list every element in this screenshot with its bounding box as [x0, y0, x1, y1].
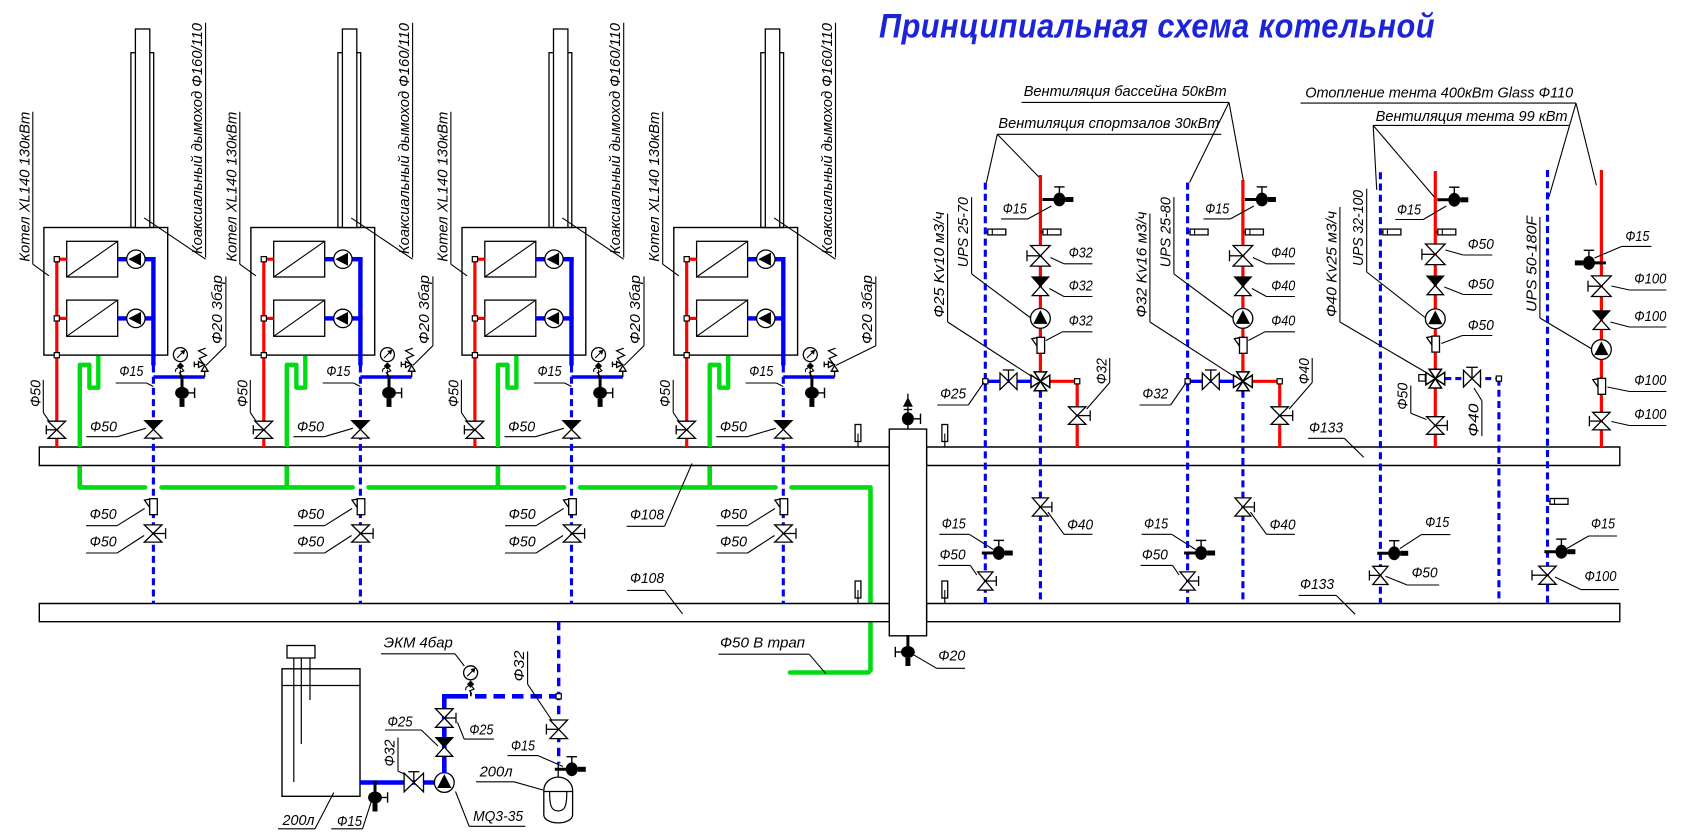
boiler 4 riser shut-off valve Ф50: [775, 525, 793, 534]
svg-text:Ф50: Ф50: [509, 506, 537, 523]
boiler 3 Котел XL140 130кВт: casing box: [462, 228, 586, 356]
boiler 2 safety valve Ф20 3бар: [411, 371, 413, 377]
svg-text:Ф108: Ф108: [630, 507, 665, 524]
svg-text:Ф15: Ф15: [1205, 201, 1230, 218]
thermowell pocket supply collector right: [944, 442, 946, 448]
circuit 3 pump UPS 32-100: [1425, 309, 1445, 329]
circuit 3 check valve Ф50: [1427, 276, 1443, 285]
boiler 1 heat exchanger 2: [67, 300, 118, 336]
svg-text:Ф15: Ф15: [337, 813, 363, 830]
boiler 2 riser shut-off valve Ф50: [352, 525, 370, 534]
boiler 3 circulation pump 1: [545, 250, 563, 268]
svg-text:Ф50: Ф50: [720, 418, 748, 435]
supply collector Ф108 (right of separator): [927, 447, 1620, 466]
circuit 2 shut-off valve Ф40: [1233, 246, 1253, 256]
circuit 2 three-way mixing valve: [1234, 375, 1243, 387]
boiler 3 green bypass loop pipe: [498, 356, 517, 447]
make-up dashed line to junction: [457, 694, 559, 699]
svg-text:Коаксиальный дымоход Ф160/110: Коаксиальный дымоход Ф160/110: [819, 22, 836, 254]
boiler 2 riser flexible insert Ф50: [352, 499, 357, 507]
circuit 2 check valve Ф40: [1235, 277, 1251, 286]
svg-text:Ф50: Ф50: [445, 379, 462, 407]
svg-text:Ф40: Ф40: [1271, 277, 1296, 294]
circuit 1 drop valve to supply collector: [1069, 407, 1086, 416]
boiler 4 red supply pipe: [685, 259, 688, 447]
svg-text:Ф32: Ф32: [511, 650, 528, 682]
circuit 2 riser from mixing valve to return collector: [1241, 391, 1244, 604]
svg-text:Вентиляция бассейна 50кВт: Вентиляция бассейна 50кВт: [1024, 83, 1227, 100]
svg-text:Ф15: Ф15: [538, 363, 563, 380]
boiler 1 heat exchanger 1: [67, 241, 118, 277]
svg-text:Ф50: Ф50: [297, 506, 325, 523]
hydraulic separator vessel: [889, 429, 926, 636]
boiler 2 coaxial chimney Ф160/110: [338, 53, 361, 228]
boiler 1 Котел XL140 130кВт: casing box: [44, 228, 168, 356]
svg-text:Ф50: Ф50: [234, 379, 251, 407]
valve Ф32 on riser: [550, 720, 568, 729]
circuit 3 thermowell pockets: [1380, 231, 1383, 233]
circuit 4 riser valve Ф100: [1539, 566, 1556, 575]
svg-text:Ф25: Ф25: [940, 386, 967, 403]
return collector Ф108/Ф133 (left of separator): [39, 604, 889, 622]
svg-text:Коаксиальный дымоход Ф160/110: Коаксиальный дымоход Ф160/110: [396, 22, 413, 254]
svg-text:Принципиальная схема котельной: Принципиальная схема котельной: [879, 8, 1435, 46]
circuit 2 supply pipe (red): [1241, 180, 1244, 372]
thermowell pocket return collector right: [944, 598, 946, 604]
circuit 1 riser drain cock Ф15: [982, 540, 1013, 560]
svg-text:Ф50: Ф50: [90, 533, 118, 550]
boiler 3 blue return riser Ф50 (dashed): [570, 366, 573, 604]
circuit 1 corner node: [1075, 379, 1080, 384]
boiler 3 heat exchanger 1: [485, 241, 536, 277]
svg-text:Ф20 3бар: Ф20 3бар: [627, 275, 644, 344]
circuit 1 riser from mixing valve to return collector: [1039, 391, 1042, 604]
boiler 2 internal blue pipework: [325, 257, 334, 261]
svg-text:Ф15: Ф15: [1003, 201, 1028, 218]
circuit 4 flexible insert: [1593, 379, 1598, 387]
circuit 1 shut-off valve Ф32: [1031, 246, 1051, 256]
svg-text:Коаксиальный дымоход Ф160/110: Коаксиальный дымоход Ф160/110: [607, 22, 624, 254]
boiler 3 Ф15 make-up line: [572, 375, 623, 378]
boiler 1 manometer with cock: [179, 370, 181, 377]
tank drain ball valve Ф15: [374, 783, 377, 792]
boiler 4 drain ball valve: [805, 376, 825, 407]
boiler 4 shut-off valve Ф50 on supply: [678, 421, 696, 430]
boiler 1 red supply pipe: [55, 259, 58, 447]
green header tie-in leg boiler 3: [496, 465, 501, 489]
circuit 4 valve Ф100 to supply collector: [1593, 412, 1610, 421]
separator bottom drain valve Ф20: [907, 636, 909, 645]
boiler 1 riser shut-off valve Ф50: [144, 525, 162, 534]
boiler 2 circulation pump 2: [334, 309, 352, 327]
return collector Ф108/Ф133 (right of separator): [927, 604, 1620, 622]
circuit 2 riser drain cock Ф15: [1184, 540, 1215, 560]
svg-text:ЭКМ 4бар: ЭКМ 4бар: [384, 634, 453, 651]
boiler 4 Ф15 make-up line: [783, 375, 834, 378]
svg-text:Ф32 Kv16 м3/ч: Ф32 Kv16 м3/ч: [1133, 211, 1150, 317]
circuit 1 drain cock Ф15: [1042, 187, 1073, 207]
boiler 3 manometer with cock: [598, 370, 600, 377]
svg-text:Ф40: Ф40: [1270, 517, 1297, 534]
svg-text:Ф50: Ф50: [27, 379, 44, 407]
green condensate header pipe: [80, 485, 145, 490]
circuit 3 blanked port node: [1419, 375, 1426, 382]
circuit 3 riser drain cock Ф15: [1377, 541, 1408, 561]
green header tie-in leg boiler 2: [284, 465, 289, 489]
svg-text:Ф50: Ф50: [90, 418, 118, 435]
circuit 1 flexible insert: [1032, 338, 1037, 346]
svg-text:Ф15: Ф15: [1591, 516, 1616, 533]
svg-text:MQ3-35: MQ3-35: [473, 808, 524, 825]
svg-text:Ф15: Ф15: [749, 363, 774, 380]
boiler 3 red supply pipe: [473, 259, 476, 447]
pump MQ3-35: [434, 773, 454, 793]
svg-text:Ф15: Ф15: [1397, 202, 1422, 219]
svg-text:Ф40: Ф40: [1271, 245, 1296, 262]
boiler 4 green bypass loop pipe: [710, 356, 729, 447]
make-up vertical pipe: [442, 694, 447, 774]
svg-text:Коаксиальный дымоход Ф160/110: Коаксиальный дымоход Ф160/110: [189, 22, 206, 254]
svg-text:Ф50: Ф50: [1468, 276, 1495, 293]
circuit 3 drain cock Ф15: [1437, 187, 1468, 207]
circuit 1 return riser (blue dashed): [984, 183, 987, 604]
boiler 3 drain ball valve: [593, 376, 613, 407]
circuit 2 corner node: [1277, 379, 1282, 384]
boiler 1 circulation pump 1: [127, 250, 145, 268]
expansion vessel 200л: [544, 777, 573, 823]
circuit 2 flexible insert: [1234, 338, 1239, 346]
circuit 4 riser thermowell pocket: [1548, 500, 1551, 502]
circuit 3 three-way mixing valve: [1426, 372, 1435, 384]
svg-text:Ф40: Ф40: [1465, 403, 1482, 437]
svg-text:200л: 200л: [282, 812, 315, 829]
circuit 2 riser valve Ф50: [1180, 572, 1195, 581]
svg-text:Котел XL140 130кВт: Котел XL140 130кВт: [223, 112, 240, 262]
drain cock Ф15 near vessel: [555, 757, 586, 777]
circuit 4 shut-off valve Ф100: [1592, 276, 1612, 286]
svg-text:Ф40: Ф40: [1067, 517, 1094, 534]
boiler 1 safety valve Ф20 3бар: [204, 371, 206, 377]
boiler 1 pipe nodes: [54, 257, 59, 262]
boiler 4 check valve Ф50 on return riser: [775, 421, 792, 430]
svg-text:Ф15: Ф15: [1625, 228, 1650, 245]
circuit 2 return riser (blue dashed): [1186, 183, 1189, 604]
svg-text:Ф133: Ф133: [1309, 419, 1344, 436]
svg-text:Ф50: Ф50: [1468, 317, 1495, 334]
circuit 4 return riser (blue dashed): [1546, 170, 1549, 603]
svg-text:UPS 25-70: UPS 25-70: [955, 197, 972, 268]
green header tie-in leg boiler 4: [707, 465, 712, 489]
circuit 4 supply pipe (red): [1600, 170, 1603, 447]
circuit 1 pump UPS 25-70: [1031, 309, 1051, 329]
svg-text:Ф25: Ф25: [388, 714, 414, 731]
svg-text:UPS 32-100: UPS 32-100: [1350, 189, 1367, 266]
boiler 3 riser flexible insert Ф50: [564, 499, 569, 507]
svg-text:Вентиляция спортзалов 30кВт: Вентиляция спортзалов 30кВт: [998, 115, 1219, 132]
circuit 2 thermowell pockets: [1188, 231, 1191, 233]
circuit 1 supply pipe (red): [1039, 175, 1042, 372]
circuit 2 valve on mixing riser: [1235, 498, 1251, 507]
svg-text:Ф20 3бар: Ф20 3бар: [209, 275, 226, 344]
green drain line to floor trap Ф50: [790, 490, 871, 673]
boiler 2 circulation pump 1: [334, 250, 352, 268]
boiler 3 internal blue pipework: [536, 257, 545, 261]
boiler 4 internal blue pipework: [748, 257, 757, 261]
boiler 2 heat exchanger 2: [274, 300, 325, 336]
boiler 4 blue return riser Ф50 (dashed): [782, 366, 785, 604]
thermowell pocket return collector left: [857, 598, 859, 604]
circuit 4 pump UPS 50-180F: [1592, 340, 1612, 360]
supply collector Ф108 (left of separator): [39, 447, 889, 466]
boiler 1 green bypass loop pipe: [80, 356, 99, 447]
boiler 3 circulation pump 2: [545, 309, 563, 327]
green header left elbow riser (boiler 1 leg): [80, 465, 82, 487]
circuit 4 check valve Ф100: [1593, 311, 1609, 320]
make-up pipe from tank: [360, 780, 435, 785]
svg-text:Ф50: Ф50: [1468, 236, 1495, 253]
circuit 1 valve on mixing riser: [1032, 498, 1048, 507]
svg-text:Ф50: Ф50: [720, 533, 748, 550]
boiler 4 safety valve Ф20 3бар: [834, 371, 836, 377]
svg-text:Ф40 Kv25 м3/ч: Ф40 Kv25 м3/ч: [1323, 211, 1340, 317]
boiler 2 Ф15 make-up line: [360, 375, 411, 378]
boiler 4 heat exchanger 1: [697, 241, 748, 277]
boiler 1 coaxial chimney Ф160/110: [131, 53, 154, 228]
circuit 2 pump UPS 25-80: [1233, 309, 1253, 329]
boiler 2 pipe nodes: [261, 257, 266, 262]
svg-text:Ф50: Ф50: [1412, 564, 1439, 581]
thermowell pocket supply collector left: [857, 442, 859, 448]
boiler 4 circulation pump 2: [757, 309, 775, 327]
svg-text:Ф108: Ф108: [630, 570, 665, 587]
circuit 2 drop valve to supply collector: [1271, 407, 1288, 416]
svg-text:Ф15: Ф15: [942, 516, 967, 533]
svg-text:Ф50: Ф50: [1142, 547, 1169, 564]
boiler 2 shut-off valve Ф50 on supply: [255, 421, 273, 430]
boiler 2 Котел XL140 130кВт: casing box: [251, 228, 375, 356]
svg-text:Ф20 3бар: Ф20 3бар: [416, 275, 433, 344]
svg-text:Ф32: Ф32: [1069, 245, 1094, 262]
boiler 3 shut-off valve Ф50 on supply: [466, 421, 484, 430]
circuit 3 return riser (blue dashed): [1379, 172, 1382, 603]
svg-text:Ф15: Ф15: [326, 363, 351, 380]
boiler 2 check valve Ф50 on return riser: [352, 421, 369, 430]
manometer ЭКМ 4бар: [470, 690, 472, 696]
boiler 1 blue return riser Ф50 (dashed): [152, 366, 155, 604]
make-up tank 200л: [282, 669, 360, 797]
boiler 4 riser flexible insert Ф50: [775, 499, 780, 507]
svg-text:Ф40: Ф40: [1271, 312, 1296, 329]
valve Ф32 make-up: [404, 773, 414, 792]
boiler 1 shut-off valve Ф50 on supply: [48, 421, 66, 430]
svg-text:Ф15: Ф15: [1425, 514, 1450, 531]
svg-text:Ф50: Ф50: [297, 533, 325, 550]
boiler 1 internal blue pipework: [118, 257, 127, 261]
circuit 3 supply pipe (red): [1434, 171, 1437, 369]
boiler 4 circulation pump 1: [757, 250, 775, 268]
svg-text:Котел XL140 130кВт: Котел XL140 130кВт: [646, 112, 663, 262]
svg-text:Ф25 Kv10 м3/ч: Ф25 Kv10 м3/ч: [931, 211, 948, 317]
boiler 2 manometer with cock: [386, 370, 388, 377]
valve Ф25: [436, 709, 454, 718]
boiler 3 coaxial chimney Ф160/110: [549, 53, 572, 228]
circuit 1 thermowell pockets: [985, 231, 988, 233]
svg-text:Ф32: Ф32: [1142, 386, 1169, 403]
svg-text:Ф32: Ф32: [1094, 358, 1111, 385]
svg-text:Ф15: Ф15: [1144, 516, 1169, 533]
junction node: [556, 694, 561, 699]
circuit 1 bypass line (blue) with valve: [985, 380, 1031, 383]
svg-text:Ф32: Ф32: [1069, 277, 1094, 294]
svg-text:Вентиляция тента 99 кВт: Вентиляция тента 99 кВт: [1376, 108, 1568, 125]
boiler 1 check valve Ф50 on return riser: [145, 421, 162, 430]
boiler 1 drain ball valve: [175, 376, 195, 407]
svg-text:Ф100: Ф100: [1634, 270, 1667, 287]
boiler 2 blue return riser Ф50 (dashed): [359, 366, 362, 604]
svg-text:Ф100: Ф100: [1634, 308, 1667, 325]
circuit 3 bypass stub with valve Ф40 (blue dashed): [1445, 377, 1499, 380]
boiler 4 manometer with cock: [809, 370, 811, 377]
svg-text:Ф100: Ф100: [1634, 372, 1667, 389]
svg-text:Ф50 В трап: Ф50 В трап: [720, 634, 805, 651]
boiler 2 drain ball valve: [382, 376, 402, 407]
svg-text:Ф20 3бар: Ф20 3бар: [859, 275, 876, 344]
circuit 4 drain cock Ф15 (left): [1575, 250, 1606, 270]
circuit 1 riser valve Ф50: [978, 572, 993, 581]
svg-text:Ф20: Ф20: [938, 648, 966, 665]
separator air vent: [907, 407, 909, 429]
circuit 2 drain cock Ф15: [1245, 187, 1276, 207]
boiler 3 check valve Ф50 on return riser: [563, 421, 580, 430]
svg-text:Ф15: Ф15: [511, 738, 536, 755]
svg-text:UPS 50-180F: UPS 50-180F: [1523, 215, 1540, 312]
boiler 3 riser shut-off valve Ф50: [563, 525, 581, 534]
circuit 4 riser drain cock Ф15: [1544, 539, 1575, 559]
svg-text:Отопление тента 400кВт Glass Ф: Отопление тента 400кВт Glass Ф110: [1305, 84, 1574, 101]
check valve Ф25: [436, 738, 453, 747]
circuit 1 check valve Ф32: [1032, 277, 1048, 286]
boiler 4 Котел XL140 130кВт: casing box: [674, 228, 798, 356]
svg-text:Ф50: Ф50: [940, 547, 967, 564]
boiler 4 heat exchanger 2: [697, 300, 748, 336]
svg-text:Ф25: Ф25: [469, 722, 494, 739]
circuit 3 riser valve Ф50: [1373, 566, 1388, 575]
make-up riser from return collector (dashed): [557, 622, 560, 764]
boiler 3 heat exchanger 2: [485, 300, 536, 336]
svg-text:Ф50: Ф50: [657, 379, 674, 407]
circuit 3 flexible insert: [1427, 337, 1432, 345]
svg-text:Ф50: Ф50: [720, 506, 748, 523]
svg-text:Котел XL140 130кВт: Котел XL140 130кВт: [434, 112, 451, 262]
svg-text:Ф40: Ф40: [1296, 358, 1313, 385]
circuit 3 shut-off valve Ф50: [1426, 244, 1446, 254]
svg-text:Ф50: Ф50: [1394, 382, 1411, 410]
svg-text:Ф32: Ф32: [1069, 312, 1094, 329]
svg-text:Ф50: Ф50: [90, 506, 118, 523]
boiler 3 safety valve Ф20 3бар: [622, 371, 624, 377]
boiler 4 coaxial chimney Ф160/110: [761, 53, 784, 228]
svg-text:Ф100: Ф100: [1585, 568, 1618, 585]
boiler 1 Ф15 make-up line: [153, 375, 204, 378]
circuit 3 valve Ф50 to supply collector: [1427, 417, 1444, 426]
boiler 2 heat exchanger 1: [274, 241, 325, 277]
boiler 1 riser flexible insert Ф50: [145, 499, 150, 507]
circuit 2 bypass line (blue) with valve: [1188, 380, 1234, 383]
boiler 2 red supply pipe: [262, 259, 265, 447]
circuit 1 three-way mixing valve: [1031, 375, 1040, 387]
svg-text:Ф50: Ф50: [297, 418, 325, 435]
boiler 1 circulation pump 2: [127, 309, 145, 327]
svg-text:Ф100: Ф100: [1634, 406, 1667, 423]
boiler 2 green bypass loop pipe: [287, 356, 306, 447]
svg-text:Котел XL140 130кВт: Котел XL140 130кВт: [16, 112, 33, 262]
svg-text:Ф32: Ф32: [382, 739, 399, 767]
svg-text:UPS 25-80: UPS 25-80: [1157, 197, 1174, 268]
svg-text:Ф50: Ф50: [509, 533, 537, 550]
svg-text:200л: 200л: [479, 764, 514, 781]
svg-text:Ф133: Ф133: [1300, 576, 1335, 593]
boiler 4 pipe nodes: [684, 257, 689, 262]
boiler 3 pipe nodes: [472, 257, 477, 262]
svg-text:Ф50: Ф50: [508, 418, 536, 435]
svg-text:Ф15: Ф15: [119, 363, 144, 380]
